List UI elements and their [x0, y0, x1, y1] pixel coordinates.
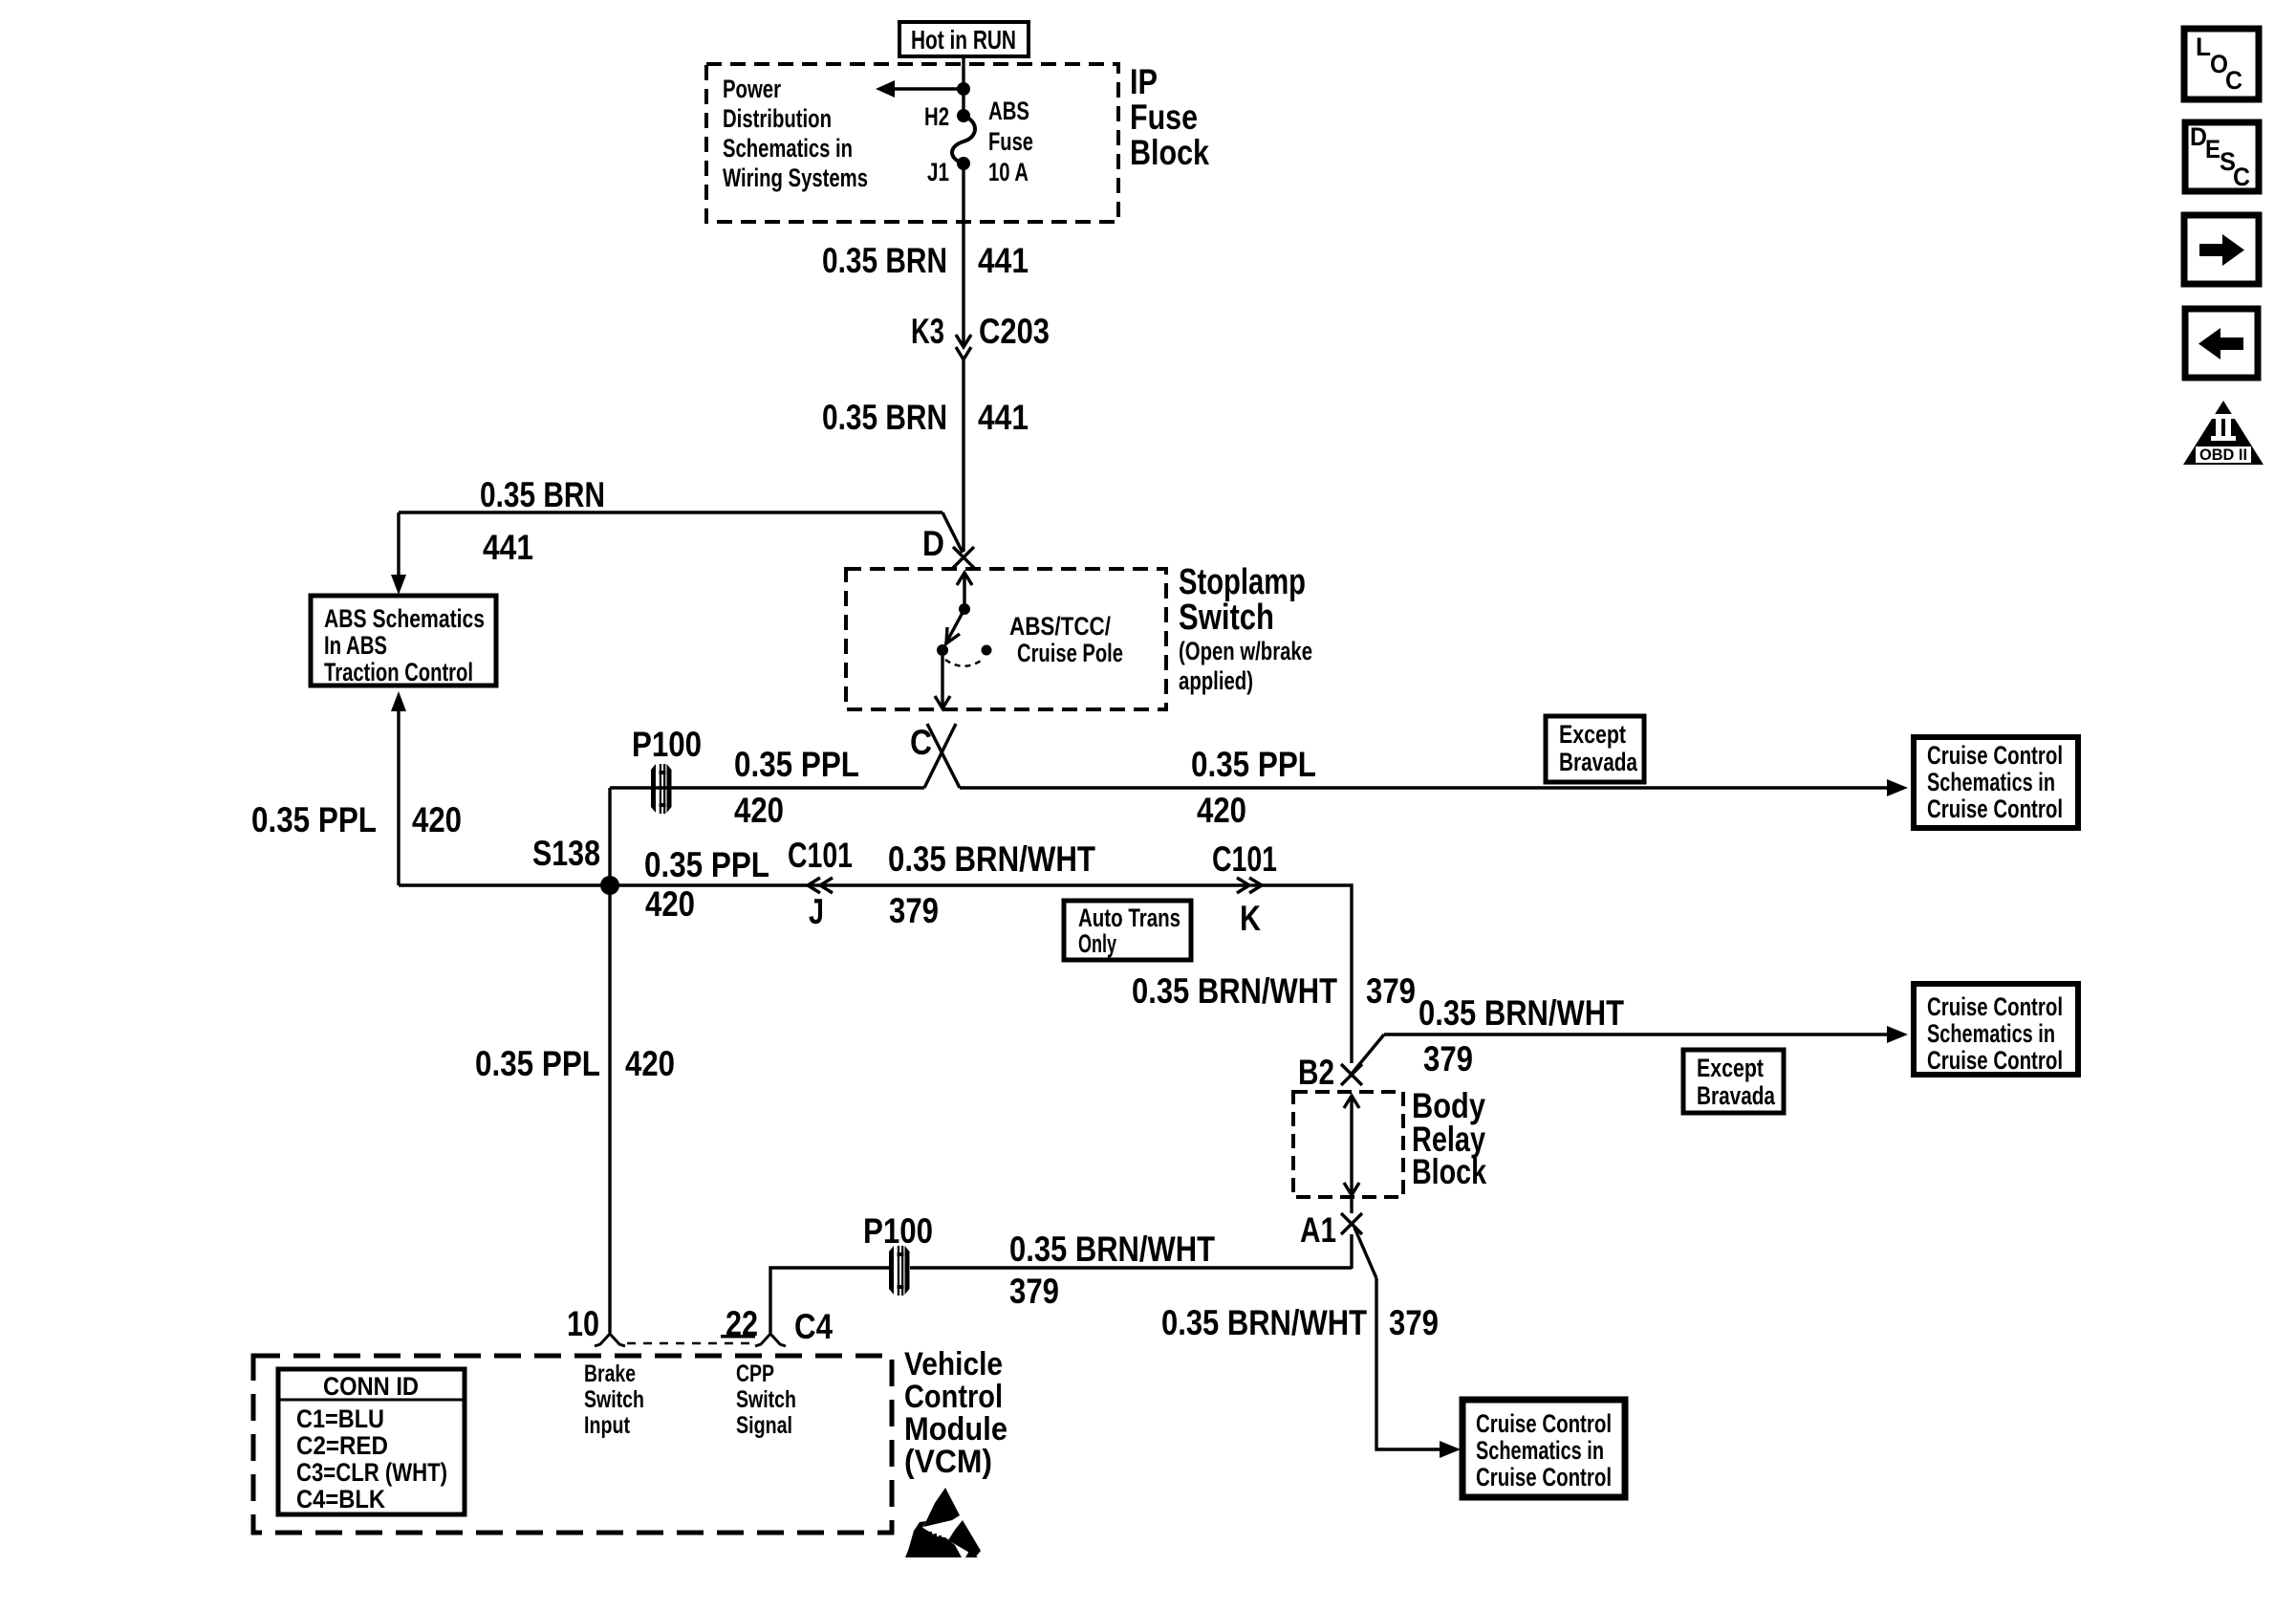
svg-text:C1=BLU: C1=BLU: [296, 1404, 384, 1433]
wire label 0.35 BRN / 441 (branch): [480, 475, 605, 567]
wire label 0.35 PPL | 420 (left vertical): [251, 800, 462, 839]
svg-text:Power: Power: [723, 75, 781, 103]
svg-text:420: 420: [645, 884, 695, 924]
svg-text:379: 379: [1009, 1272, 1059, 1311]
svg-text:Cruise Control: Cruise Control: [1927, 795, 2063, 823]
svg-text:In ABS: In ABS: [324, 631, 387, 660]
ESD sensitivity symbol (triangle with hand): [905, 1488, 981, 1557]
switch lower arm with down arrow: [935, 656, 950, 708]
svg-text:379: 379: [1423, 1039, 1473, 1078]
annotation: ABS/TCC/ Cruise Pole: [1009, 612, 1123, 667]
svg-text:C101: C101: [1212, 839, 1277, 879]
icon: forward arrow button: [2184, 215, 2259, 284]
wire: A1 branch to cruise control (diagonal, down, right): [1354, 1228, 1441, 1449]
svg-text:B2: B2: [1298, 1053, 1334, 1092]
component name: Stoplamp Switch (Open w/brake applied): [1179, 562, 1312, 695]
arrow into Cruise Control box (upper): [1887, 779, 1908, 796]
svg-text:Bravada: Bravada: [1559, 748, 1638, 776]
terminal H2 dot: [924, 102, 970, 131]
svg-text:K: K: [1240, 899, 1261, 938]
wire label 0.35 BRN/WHT (J-K): [888, 839, 1095, 930]
svg-text:Brake: Brake: [584, 1361, 636, 1387]
svg-text:(Open w/brake: (Open w/brake: [1179, 637, 1312, 665]
svg-text:Control: Control: [904, 1379, 1003, 1415]
svg-text:441: 441: [978, 241, 1029, 280]
svg-text:Except: Except: [1559, 720, 1626, 749]
reference box: Cruise Control Schematics (upper): [1914, 737, 2078, 828]
CONN ID table box: [278, 1369, 465, 1514]
svg-text:Bravada: Bravada: [1697, 1081, 1776, 1110]
reference box: Cruise Control Schematics (lower): [1462, 1400, 1625, 1497]
wire label 0.35 BRN 441 (lower): [822, 398, 1029, 437]
svg-text:Vehicle: Vehicle: [904, 1346, 1003, 1382]
qualifier box: Except Bravada (lower): [1683, 1050, 1784, 1113]
wire label 0.35 BRN 441 (upper): [822, 241, 1029, 280]
svg-text:441: 441: [483, 528, 533, 567]
arrow up into ABS Schematics box from PPL wire: [391, 691, 406, 885]
svg-text:0.35 PPL: 0.35 PPL: [1191, 745, 1316, 784]
svg-text:Schematics in: Schematics in: [723, 134, 853, 163]
wire label 0.35 PPL / 420 (S138 right): [644, 845, 769, 924]
svg-text:Signal: Signal: [736, 1412, 792, 1439]
svg-text:0.35 PPL: 0.35 PPL: [644, 845, 769, 884]
svg-text:0.35 BRN: 0.35 BRN: [480, 475, 605, 514]
svg-text:C: C: [2225, 66, 2242, 95]
arrow to power distribution (left): [876, 80, 964, 98]
svg-text:Switch: Switch: [736, 1386, 796, 1413]
wire: C to P100 (left branch): [610, 788, 924, 885]
qualifier box: Auto Trans Only: [1064, 901, 1191, 960]
svg-text:Auto Trans: Auto Trans: [1078, 903, 1180, 932]
svg-text:S138: S138: [532, 834, 600, 873]
wire: feed from Hot in RUN into fuse block: [962, 56, 964, 116]
svg-text:Switch: Switch: [1179, 598, 1274, 638]
wire: S138 to J (C101): [399, 883, 1247, 886]
svg-text:C101: C101: [788, 836, 853, 875]
svg-text:K3: K3: [911, 312, 944, 351]
splice S138: [532, 834, 619, 895]
wire: C203 to stoplamp switch: [962, 359, 964, 552]
grommet P100 (lower): [889, 1246, 910, 1295]
pin label: Brake Switch Input: [584, 1361, 644, 1439]
reference box: ABS Schematics In ABS Traction Control: [311, 596, 496, 686]
svg-text:Fuse: Fuse: [1130, 98, 1198, 137]
wire: K to B2 (right + down): [1262, 885, 1352, 1063]
svg-text:applied): applied): [1179, 666, 1253, 695]
svg-text:0.35 PPL: 0.35 PPL: [734, 745, 859, 784]
wire: branch to ABS schematics (horizontal + diagonal into D): [399, 512, 963, 553]
reference box: Cruise Control Schematics (middle): [1914, 984, 2078, 1075]
wire: brake switch input drop from S138: [608, 885, 611, 1333]
note: Power Distribution Schematics reference: [723, 75, 868, 192]
svg-text:0.35 BRN/WHT: 0.35 BRN/WHT: [1161, 1303, 1367, 1342]
svg-text:J: J: [809, 892, 824, 931]
wire: J to K 0.35 BRN/WHT 379: [1247, 883, 1262, 886]
svg-text:C4=BLK: C4=BLK: [296, 1485, 385, 1513]
component name: Vehicle Control Module (VCM): [904, 1346, 1007, 1480]
wire label 0.35 PPL | 420 (S138 drop): [475, 1044, 675, 1083]
switch upper contact dot: [959, 603, 970, 615]
wire: A1 down to P100 horizontal: [910, 1266, 1352, 1269]
VCM terminal 22 (half-loop) + C4: [721, 1304, 833, 1346]
icon: LOC button: [2184, 29, 2259, 99]
svg-text:0.35 BRN/WHT: 0.35 BRN/WHT: [1132, 971, 1337, 1011]
svg-text:C: C: [910, 723, 932, 762]
svg-text:Traction Control: Traction Control: [324, 658, 473, 686]
wire label 0.35 PPL / 420 (left of C): [734, 745, 859, 830]
arrow into Cruise Control box (middle): [1887, 1026, 1908, 1043]
svg-text:Block: Block: [1130, 133, 1209, 172]
wire: C to cruise control (right branch): [960, 786, 1887, 789]
svg-text:Hot in RUN: Hot in RUN: [911, 25, 1016, 54]
svg-text:Module: Module: [904, 1411, 1007, 1448]
svg-text:Cruise Control: Cruise Control: [1476, 1463, 1612, 1491]
svg-text:10: 10: [567, 1304, 599, 1343]
svg-text:C2=RED: C2=RED: [296, 1431, 388, 1460]
terminal J1 dot: [927, 157, 970, 186]
svg-text:A1: A1: [1300, 1210, 1336, 1250]
svg-text:OBD II: OBD II: [2199, 446, 2247, 464]
cruise pole contact dot: [982, 645, 992, 656]
svg-text:H2: H2: [924, 102, 949, 131]
wire label 0.35 BRN/WHT / 379 (B2 branch): [1419, 993, 1624, 1078]
switch lower contact dot: [937, 644, 948, 656]
svg-text:Cruise Control: Cruise Control: [1927, 992, 2063, 1021]
svg-text:Schematics in: Schematics in: [1927, 768, 2055, 796]
value label: ABS Fuse 10 A: [988, 97, 1033, 186]
VCM dashed outline: [253, 1356, 892, 1533]
wire label 0.35 BRN/WHT | 379 (A1 branch): [1161, 1303, 1439, 1342]
svg-text:CPP: CPP: [736, 1361, 774, 1387]
svg-text:0.35 BRN: 0.35 BRN: [822, 241, 947, 280]
svg-text:379: 379: [1366, 971, 1416, 1011]
svg-text:Stoplamp: Stoplamp: [1179, 562, 1306, 602]
connector C203 terminal K3 (inline double chevron): [911, 312, 1050, 359]
svg-text:Fuse: Fuse: [988, 127, 1033, 156]
label P100 (upper): [632, 725, 702, 764]
svg-text:Block: Block: [1412, 1152, 1486, 1191]
switch blade (moving contact with arrowhead): [945, 609, 964, 644]
dashed internal link terminal 10 to 22: [627, 1342, 753, 1345]
svg-text:(VCM): (VCM): [904, 1444, 992, 1480]
arrow into Cruise Control box (lower): [1440, 1441, 1461, 1458]
VCM terminal 10 (half-loop): [567, 1304, 625, 1346]
connector C101 terminal K (double chevron right): [1212, 839, 1277, 938]
svg-text:0.35 BRN/WHT: 0.35 BRN/WHT: [888, 839, 1095, 879]
svg-text:Input: Input: [584, 1412, 631, 1439]
svg-text:Except: Except: [1697, 1054, 1764, 1082]
svg-text:10 A: 10 A: [988, 158, 1029, 186]
svg-text:E: E: [2205, 135, 2220, 163]
svg-text:0.35 PPL: 0.35 PPL: [251, 800, 377, 839]
wire: fuse output down to C203: [962, 163, 964, 345]
svg-text:IP: IP: [1130, 62, 1158, 101]
svg-text:CONN ID: CONN ID: [323, 1372, 419, 1401]
svg-text:Cruise Control: Cruise Control: [1476, 1409, 1612, 1438]
svg-text:ABS Schematics: ABS Schematics: [324, 604, 485, 633]
svg-text:ABS: ABS: [988, 97, 1029, 125]
svg-text:Schematics in: Schematics in: [1927, 1019, 2055, 1048]
fuse F1 ABS Fuse 10A (S-curve element): [952, 116, 975, 163]
wire label 0.35 BRN/WHT / 379 (P100 run): [1009, 1230, 1215, 1311]
svg-text:C: C: [2233, 163, 2250, 191]
junction node on feed: [957, 82, 970, 96]
grommet P100 (upper): [651, 764, 672, 814]
svg-text:420: 420: [1197, 791, 1246, 830]
svg-text:Cruise Pole: Cruise Pole: [1017, 639, 1123, 667]
svg-text:Switch: Switch: [584, 1386, 644, 1413]
svg-text:C4: C4: [794, 1307, 833, 1346]
stoplamp switch dashed outline: [846, 569, 1166, 709]
label P100 (lower): [863, 1211, 933, 1251]
svg-text:Cruise Control: Cruise Control: [1927, 1046, 2063, 1075]
connector B2 (X) into body relay block: [1298, 1053, 1362, 1092]
connector D (X) at stoplamp switch: [922, 524, 974, 568]
connector C101 terminal J (double chevron left): [788, 836, 853, 931]
svg-text:379: 379: [1389, 1303, 1439, 1342]
svg-text:379: 379: [889, 891, 939, 930]
svg-text:D: D: [922, 524, 944, 563]
svg-text:0.35 BRN/WHT: 0.35 BRN/WHT: [1419, 993, 1624, 1033]
svg-text:Wiring Systems: Wiring Systems: [723, 163, 868, 192]
svg-text:P100: P100: [632, 725, 702, 764]
wire label 0.35 BRN/WHT | 379 (K vertical): [1132, 971, 1416, 1011]
svg-text:ABS/TCC/: ABS/TCC/: [1009, 612, 1111, 641]
wire: B2 branch to cruise control: [1352, 1034, 1887, 1074]
connector A1 (X) below body relay block: [1300, 1197, 1362, 1269]
wire: CPP riser from terminal 22: [770, 1268, 889, 1333]
svg-text:0.35 BRN: 0.35 BRN: [822, 398, 947, 437]
power source label "Hot in RUN": [899, 22, 1029, 56]
IP fuse block dashed outline: [706, 64, 1118, 222]
svg-text:441: 441: [978, 398, 1029, 437]
svg-text:C3=CLR (WHT): C3=CLR (WHT): [296, 1458, 447, 1487]
svg-text:P100: P100: [863, 1211, 933, 1251]
svg-text:J1: J1: [927, 158, 949, 186]
svg-text:420: 420: [412, 800, 462, 839]
icon: back arrow button: [2185, 309, 2258, 378]
svg-text:0.35 PPL: 0.35 PPL: [475, 1044, 600, 1083]
icon: DESC button: [2185, 122, 2259, 191]
svg-text:Distribution: Distribution: [723, 104, 832, 133]
connector C (X) below stoplamp switch: [910, 723, 960, 788]
component name: Body Relay Block: [1412, 1086, 1486, 1191]
svg-text:L: L: [2196, 33, 2211, 61]
svg-text:Schematics in: Schematics in: [1476, 1436, 1604, 1465]
component name: IP Fuse Block: [1130, 62, 1209, 172]
body relay block dashed outline: [1293, 1092, 1403, 1197]
svg-text:Cruise Control: Cruise Control: [1927, 741, 2063, 770]
qualifier box: Except Bravada (upper): [1546, 716, 1644, 782]
wire label 0.35 PPL / 420 (right of C): [1191, 745, 1316, 830]
dashed travel arc to cruise pole: [945, 659, 984, 666]
svg-text:Only: Only: [1078, 929, 1116, 958]
svg-text:420: 420: [734, 791, 784, 830]
svg-text:420: 420: [625, 1044, 675, 1083]
internal wire with arrows (body relay block): [1344, 1096, 1359, 1195]
pin label: CPP Switch Signal: [736, 1361, 796, 1439]
icon: OBD II triangle: [2183, 401, 2264, 465]
svg-text:C203: C203: [979, 312, 1050, 351]
switch SW1 upper arm with up arrow: [957, 573, 972, 609]
arrow down into ABS Schematics box: [391, 512, 406, 595]
svg-text:0.35 BRN/WHT: 0.35 BRN/WHT: [1009, 1230, 1215, 1269]
